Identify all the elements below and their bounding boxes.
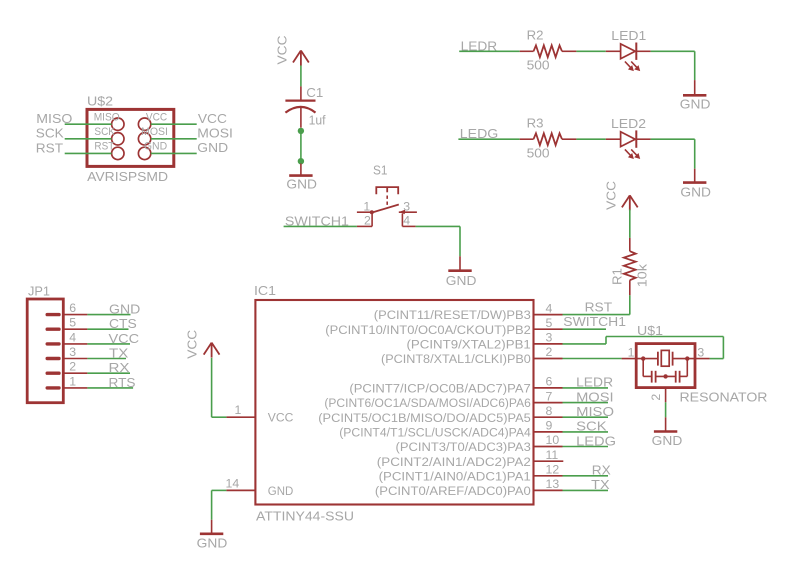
svg-text:6: 6	[546, 375, 553, 389]
svg-text:(PCINT5/OC1B/MISO/DO/ADC5)PA5: (PCINT5/OC1B/MISO/DO/ADC5)PA5	[318, 411, 531, 425]
net label RX (JP1)	[109, 360, 130, 375]
svg-text:C1: C1	[306, 85, 323, 100]
wire net LEDR (IC1)	[563, 387, 609, 389]
net label SWITCH1 (right)	[563, 314, 626, 329]
svg-text:GND: GND	[446, 273, 477, 288]
svg-text:SCK: SCK	[36, 126, 64, 141]
svg-text:(PCINT9/XTAL2)PB1: (PCINT9/XTAL2)PB1	[407, 338, 531, 352]
svg-text:VCC: VCC	[268, 411, 294, 425]
svg-text:R2: R2	[527, 28, 544, 43]
wire net LEDG (IC1)	[563, 446, 609, 448]
svg-text:LED2: LED2	[611, 116, 646, 131]
svg-text:MISO: MISO	[576, 404, 614, 419]
svg-text:4: 4	[403, 214, 410, 228]
wire VCC to R1	[629, 209, 631, 238]
wire net MOSI (right)	[151, 138, 197, 140]
wire net SWITCH1 (pin 5)	[563, 328, 607, 330]
wire C1 to GND	[300, 131, 302, 161]
svg-text:3: 3	[546, 331, 553, 345]
ground symbol (LED1)	[680, 80, 711, 111]
svg-text:3: 3	[403, 199, 410, 213]
svg-text:R3: R3	[527, 116, 544, 131]
wire net SCK (IC1)	[563, 431, 609, 433]
wire LED2 to GND	[651, 139, 695, 169]
connector U$2 AVRISPSMD body	[87, 94, 174, 184]
svg-text:(PCINT4/T1/SCL/USCK/ADC4)PA4: (PCINT4/T1/SCL/USCK/ADC4)PA4	[339, 426, 531, 440]
IC1 pin 11 (PCINT2/AIN1/ADC2)PA2	[377, 448, 564, 469]
wire IC1 pin 3 to resonator pin 3	[563, 337, 724, 359]
svg-text:SCK: SCK	[94, 126, 115, 138]
wire net MISO (left)	[65, 123, 112, 125]
IC1 pin 6 (PCINT7/ICP/OC0B/ADC7)PA7	[349, 375, 562, 396]
wire R3 to LED2	[576, 138, 605, 140]
IC1 pin 1 VCC (left)	[226, 403, 293, 425]
svg-text:(PCINT2/AIN1/ADC2)PA2: (PCINT2/AIN1/ADC2)PA2	[377, 455, 531, 469]
svg-text:RST: RST	[94, 141, 114, 153]
IC1 pin 8 (PCINT5/OC1B/MISO/DO/ADC5)PA5	[318, 404, 562, 425]
IC1 pin 4 (PCINT11/RESET/DW)PB3	[374, 301, 563, 322]
svg-text:12: 12	[546, 463, 560, 477]
svg-text:(PCINT3/T0/ADC3)PA3: (PCINT3/T0/ADC3)PA3	[396, 440, 531, 454]
svg-text:1uf: 1uf	[309, 112, 326, 127]
JP1 pin 2	[47, 360, 87, 374]
power symbol VCC (above R1)	[604, 181, 638, 211]
capacitor C1	[285, 85, 325, 128]
svg-text:JP1: JP1	[28, 283, 50, 298]
svg-text:GND: GND	[197, 140, 228, 155]
svg-text:VCC: VCC	[146, 111, 167, 123]
wire net LEDR	[459, 50, 520, 52]
IC1 pin 13 (PCINT0/AREF/ADC0)PA0	[375, 477, 563, 498]
svg-text:R1: R1	[609, 268, 624, 285]
svg-text:(PCINT11/RESET/DW)PB3: (PCINT11/RESET/DW)PB3	[374, 308, 531, 322]
svg-text:GND: GND	[286, 177, 317, 192]
net label VCC	[198, 111, 227, 126]
net label MOSI	[197, 125, 233, 140]
svg-text:14: 14	[226, 477, 240, 491]
wire U$1 pin 2 to GND	[665, 402, 667, 417]
net label RST	[585, 299, 613, 314]
wire net TX (JP1)	[87, 358, 126, 360]
net label VCC (JP1)	[109, 331, 140, 346]
ground symbol (U$1)	[652, 417, 683, 448]
svg-text:SCK: SCK	[576, 419, 607, 434]
svg-text:TX: TX	[109, 345, 129, 360]
connector JP1 body	[27, 283, 63, 402]
svg-text:GND: GND	[197, 536, 228, 551]
wire net RX (JP1)	[87, 372, 130, 374]
JP1 pin 1	[47, 374, 87, 388]
svg-text:RST: RST	[585, 299, 613, 314]
net label MISO (IC1)	[576, 404, 614, 419]
net label GND	[197, 140, 228, 155]
svg-text:IC1: IC1	[254, 283, 276, 298]
svg-text:VCC: VCC	[274, 36, 289, 65]
svg-text:S1: S1	[373, 163, 388, 178]
resistor R1	[609, 238, 649, 295]
wire IC1 pin 2 to resonator pin 1	[563, 358, 622, 360]
net label LEDG	[460, 126, 499, 141]
svg-text:GND: GND	[652, 433, 683, 448]
svg-text:LEDG: LEDG	[576, 433, 616, 448]
wire S1 pin 4 to GND	[416, 226, 460, 256]
net label RST	[36, 140, 63, 155]
power symbol VCC (IC1 pin 1)	[184, 330, 219, 359]
wire VCC to IC1 pin 1	[212, 358, 227, 417]
net label TX (IC1)	[591, 477, 610, 492]
svg-text:4: 4	[69, 330, 76, 344]
wire R2 to LED1	[576, 50, 605, 52]
svg-text:2: 2	[69, 360, 76, 374]
IC1 pin 10 (PCINT3/T0/ADC3)PA3	[396, 433, 563, 454]
svg-text:MOSI: MOSI	[141, 126, 168, 138]
svg-text:GND: GND	[109, 302, 140, 317]
wire LED1 to GND	[651, 51, 695, 80]
svg-text:RX: RX	[592, 463, 611, 478]
LED LED1	[606, 28, 651, 71]
svg-text:1: 1	[69, 374, 76, 388]
svg-text:1: 1	[363, 199, 370, 213]
wire net CTS (JP1)	[87, 328, 128, 330]
svg-text:GND: GND	[680, 185, 711, 200]
svg-text:AVRISPSMD: AVRISPSMD	[87, 169, 168, 184]
svg-text:VCC: VCC	[198, 111, 227, 126]
svg-text:2: 2	[546, 345, 553, 359]
net label MISO	[36, 111, 72, 126]
svg-text:7: 7	[546, 389, 553, 403]
IC U1 IC1 ATTINY44-SSU body	[254, 283, 534, 523]
net label SCK	[36, 126, 64, 141]
wire net LEDG	[458, 138, 519, 140]
svg-text:6: 6	[69, 301, 76, 315]
net label MOSI (IC1)	[576, 389, 614, 404]
wire net VCC (right)	[151, 123, 197, 125]
net label LEDR	[461, 38, 498, 53]
IC1 pin 9 (PCINT4/T1/SCL/USCK/ADC4)PA4	[339, 419, 562, 440]
IC1 pin 5 (PCINT10/INT0/OC0A/CKOUT)PB2	[325, 316, 562, 337]
LED LED2	[606, 116, 651, 159]
wire net RX (IC1)	[563, 475, 609, 477]
svg-text:LED1: LED1	[611, 28, 646, 43]
net label LEDG (IC1)	[576, 433, 616, 448]
JP1 pin 6	[47, 301, 87, 315]
JP1 pin 5	[47, 316, 87, 330]
svg-text:VCC: VCC	[109, 331, 140, 346]
wire net RST (R1 to IC1 pin 4)	[563, 295, 630, 314]
net label SCK (IC1)	[576, 419, 607, 434]
svg-text:5: 5	[546, 316, 553, 330]
wire net VCC (JP1)	[87, 343, 130, 345]
resistor R3	[520, 116, 577, 161]
wire net GND (JP1)	[87, 314, 130, 316]
svg-text:TX: TX	[591, 477, 610, 492]
svg-text:MISO: MISO	[36, 111, 72, 126]
svg-text:CTS: CTS	[109, 316, 137, 331]
svg-text:GND: GND	[268, 484, 294, 498]
svg-text:8: 8	[546, 404, 553, 418]
svg-text:(PCINT7/ICP/OC0B/ADC7)PA7: (PCINT7/ICP/OC0B/ADC7)PA7	[349, 382, 531, 396]
U$2 pad circles	[112, 118, 151, 160]
svg-text:VCC: VCC	[604, 181, 619, 210]
svg-text:2: 2	[364, 214, 371, 228]
svg-text:(PCINT10/INT0/OC0A/CKOUT)PB2: (PCINT10/INT0/OC0A/CKOUT)PB2	[325, 323, 531, 337]
wire net MOSI (IC1)	[563, 402, 609, 404]
svg-text:U$2: U$2	[87, 94, 113, 109]
net label GND (JP1)	[109, 302, 140, 317]
wire net MISO (IC1)	[563, 416, 609, 418]
switch S1	[357, 163, 417, 228]
power symbol VCC (above C1)	[274, 36, 309, 66]
svg-text:500: 500	[527, 57, 550, 72]
svg-text:4: 4	[546, 301, 553, 315]
IC1 pin 2 (PCINT8/XTAL1/CLKI)PB0	[381, 345, 563, 366]
svg-text:(PCINT6/OC1A/SDA/MOSI/ADC6)PA6: (PCINT6/OC1A/SDA/MOSI/ADC6)PA6	[324, 396, 531, 410]
IC1 pin 14 GND (left)	[226, 477, 294, 498]
svg-text:500: 500	[527, 145, 550, 160]
svg-text:1: 1	[628, 345, 635, 359]
IC1 pin 3 (PCINT9/XTAL2)PB1	[407, 331, 563, 352]
IC1 pin 7 (PCINT6/OC1A/SDA/MOSI/ADC6)PA6	[324, 389, 562, 410]
svg-text:2: 2	[649, 394, 663, 401]
wire net RST stub (pin 4 covered above)	[0, 0, 1, 1]
svg-text:RST: RST	[36, 140, 63, 155]
wire net TX (IC1)	[563, 489, 609, 491]
JP1 pin 3	[47, 345, 87, 359]
svg-text:5: 5	[69, 316, 76, 330]
ground symbol (LED2)	[680, 169, 711, 200]
junction dot	[298, 128, 304, 134]
svg-text:3: 3	[69, 345, 76, 359]
svg-text:RTS: RTS	[109, 375, 136, 390]
svg-text:(PCINT0/AREF/ADC0)PA0: (PCINT0/AREF/ADC0)PA0	[375, 484, 531, 498]
ground symbol (S1)	[446, 256, 477, 288]
svg-text:9: 9	[546, 419, 553, 433]
svg-text:10: 10	[546, 433, 560, 447]
net label RX (IC1)	[592, 463, 611, 478]
wire net GND (right)	[151, 152, 197, 154]
wire net RTS (JP1)	[87, 387, 133, 389]
resonator U$1 body	[636, 323, 767, 404]
svg-text:10k: 10k	[634, 264, 649, 288]
ground symbol (IC1)	[197, 520, 228, 551]
U$1 internal crystal and caps	[622, 345, 710, 402]
net label RTS (JP1)	[109, 375, 136, 390]
svg-text:RX: RX	[109, 360, 130, 375]
net label SWITCH1 (at S1)	[285, 213, 349, 228]
resistor R2	[520, 28, 577, 73]
wire IC1 pin 14 to GND	[212, 490, 227, 519]
svg-text:11: 11	[546, 448, 559, 462]
svg-text:U$1: U$1	[637, 323, 663, 338]
svg-text:LEDR: LEDR	[576, 375, 613, 390]
svg-text:VCC: VCC	[184, 330, 199, 359]
svg-text:SWITCH1: SWITCH1	[563, 314, 626, 329]
svg-text:1: 1	[235, 403, 242, 417]
svg-text:MISO: MISO	[94, 111, 120, 123]
wire net SCK (left)	[65, 138, 112, 140]
svg-text:GND: GND	[144, 141, 167, 153]
net label CTS (JP1)	[109, 316, 137, 331]
net label LEDR (IC1)	[576, 375, 613, 390]
svg-text:13: 13	[546, 477, 560, 491]
IC1 pin 12 (PCINT1/AIN0/ADC1)PA1	[379, 463, 563, 484]
svg-text:RESONATOR: RESONATOR	[680, 389, 768, 404]
JP1 pin 4	[47, 330, 87, 344]
wire net RST (left)	[65, 152, 112, 154]
U$2 pin name labels	[94, 111, 168, 152]
svg-text:MOSI: MOSI	[197, 125, 233, 140]
junction dot	[298, 158, 304, 164]
ground symbol (below C1)	[286, 164, 317, 192]
svg-text:ATTINY44-SSU: ATTINY44-SSU	[256, 508, 354, 523]
net label TX (JP1)	[109, 345, 129, 360]
svg-text:3: 3	[697, 345, 704, 359]
svg-text:GND: GND	[680, 96, 711, 111]
wire VCC to C1	[300, 66, 302, 87]
wire net SWITCH1 to S1 pin 2	[284, 225, 357, 227]
svg-text:(PCINT8/XTAL1/CLKI)PB0: (PCINT8/XTAL1/CLKI)PB0	[381, 352, 531, 366]
svg-text:MOSI: MOSI	[576, 389, 614, 404]
svg-text:(PCINT1/AIN0/ADC1)PA1: (PCINT1/AIN0/ADC1)PA1	[379, 469, 531, 483]
